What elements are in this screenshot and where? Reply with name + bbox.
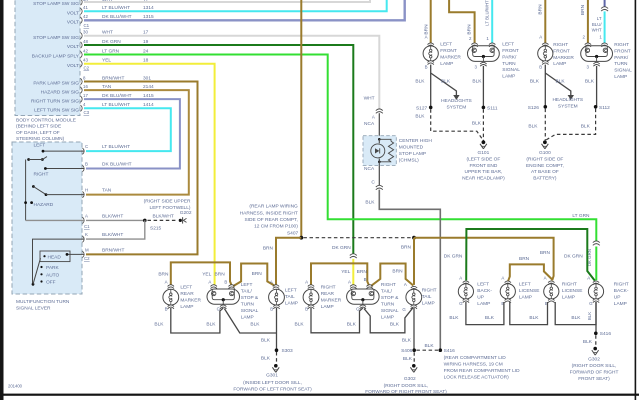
BLK label right branch	[556, 78, 566, 84]
lamp LEFT REAR MARKER	[163, 289, 179, 305]
svg-text:STEERING COLUMN): STEERING COLUMN)	[16, 136, 65, 142]
svg-text:LAMP: LAMP	[519, 294, 532, 300]
svg-text:LT BLU/WHT: LT BLU/WHT	[102, 5, 130, 11]
svg-text:LEFT TURN SW SIG: LEFT TURN SW SIG	[34, 108, 79, 114]
svg-text:BODY CONTROL MODULE: BODY CONTROL MODULE	[16, 117, 76, 123]
svg-text:BLK: BLK	[529, 315, 539, 321]
pin G label left tail/stop	[217, 307, 221, 312]
pin 1 label left park	[486, 36, 489, 41]
svg-text:S112: S112	[599, 105, 610, 111]
NCA note below CHMSL	[364, 166, 375, 172]
svg-text:TURN: TURN	[241, 301, 255, 307]
svg-text:BACKUP LAMP SPLY: BACKUP LAMP SPLY	[32, 54, 80, 60]
svg-text:FRONT: FRONT	[440, 48, 457, 54]
cut top row text slivers	[83, 0, 149, 3]
svg-text:G: G	[459, 301, 463, 306]
wire BRN feed left front marker	[430, 0, 432, 43]
BCM pin 8 row labels (BRN/WHT 301)	[33, 75, 151, 86]
svg-text:41: 41	[83, 5, 88, 10]
svg-text:FORWARD OF LEFT FRONT SEAT): FORWARD OF LEFT FRONT SEAT)	[233, 386, 312, 392]
right license caption	[562, 281, 583, 300]
multifunction turn signal lever box	[12, 142, 82, 294]
svg-text:BRN: BRN	[401, 245, 412, 251]
hazard contacts	[24, 201, 33, 204]
inline connector right park pin 1	[601, 7, 608, 11]
BCM pin 43 row labels (YEL 18)	[67, 58, 149, 69]
BLK label S406-S416	[424, 343, 434, 349]
svg-text:LAMP: LAMP	[321, 304, 334, 310]
BLK label right marker	[530, 78, 540, 84]
svg-text:BLK: BLK	[449, 315, 459, 321]
svg-text:LT: LT	[597, 16, 602, 21]
BRN staple marker to tail/stop pin B	[171, 262, 232, 286]
HEADLIGHTS SYSTEM text right	[552, 97, 583, 109]
svg-text:HAZARD: HAZARD	[34, 202, 54, 208]
splice S303	[275, 348, 293, 354]
svg-text:BRN: BRN	[580, 4, 586, 15]
svg-text:YEL: YEL	[341, 269, 350, 275]
svg-text:DK GRN: DK GRN	[444, 253, 463, 259]
dashed S407 harness link	[303, 237, 412, 239]
pin 2 label right park	[583, 35, 586, 40]
svg-text:BRN: BRN	[537, 4, 543, 15]
svg-text:SIGNAL: SIGNAL	[241, 308, 259, 314]
BRN label left drop	[263, 245, 274, 251]
pin G label right tail/stop	[356, 307, 360, 312]
svg-text:LAMP: LAMP	[422, 300, 435, 306]
BRN label left staple	[158, 272, 169, 278]
pin H stub	[46, 194, 84, 196]
BLK label right 2	[347, 322, 357, 328]
ground G302 right	[592, 347, 599, 355]
pin G label right backup	[589, 301, 593, 306]
dashed S416 to G302 right	[595, 335, 597, 347]
svg-text:BRN/WHT: BRN/WHT	[102, 75, 124, 81]
svg-text:M: M	[85, 247, 89, 252]
connector right backup pin G	[593, 299, 599, 303]
pin K stub and headlamp switch riser	[33, 239, 85, 284]
svg-text:G101: G101	[478, 150, 490, 156]
wire LT GRN 24 (pin 42) across to right back-up lamp	[84, 55, 596, 241]
svg-text:C1: C1	[84, 23, 90, 28]
lamp LEFT FRONT PARK/TURN SIGNAL	[468, 46, 500, 62]
wire YEL below connector to right tail/stop pin A	[352, 259, 354, 285]
svg-text:42: 42	[83, 14, 88, 19]
footwell location note	[144, 198, 191, 211]
svg-text:BLK: BLK	[581, 123, 591, 129]
connector right license pin B	[548, 299, 554, 303]
svg-text:VOLT: VOLT	[67, 44, 79, 50]
wire WHT 17 (pin 40, top cut row)	[84, 0, 370, 2]
pin B label right license	[545, 301, 548, 306]
BLK label below S127	[415, 113, 425, 119]
svg-text:BRN: BRN	[519, 256, 530, 262]
G100 label	[539, 150, 551, 156]
ground G301	[272, 364, 279, 372]
right turn contact stub (pin B)	[44, 167, 84, 170]
svg-text:BACK-: BACK-	[477, 288, 492, 294]
BCM pin 48 row labels (DK GRN 19)	[67, 39, 149, 50]
svg-text:C2: C2	[84, 65, 90, 70]
svg-text:A: A	[404, 282, 407, 287]
DK GRN label right	[564, 254, 583, 260]
svg-text:B: B	[165, 307, 168, 312]
svg-text:BLK: BLK	[485, 315, 495, 321]
turn signal blade	[32, 185, 47, 196]
pin A label left marker	[425, 35, 428, 40]
svg-text:MOUNTED: MOUNTED	[399, 144, 424, 150]
svg-text:STOP LAMP SW SIG: STOP LAMP SW SIG	[33, 35, 79, 41]
svg-text:A: A	[544, 275, 547, 280]
pin A label right rear marker	[305, 279, 308, 284]
svg-text:CENTER HIGH: CENTER HIGH	[399, 138, 433, 144]
pin B label left marker	[425, 64, 428, 69]
svg-text:HAZARD SW SIG: HAZARD SW SIG	[41, 89, 80, 95]
svg-text:A: A	[348, 279, 351, 284]
wire BLK left tail/stop G to tail B column	[224, 309, 276, 333]
connector at right marker pin A	[542, 43, 548, 47]
svg-text:(RIGHT DOOR SILL,: (RIGHT DOOR SILL,	[384, 383, 429, 389]
svg-text:LEFT: LEFT	[180, 285, 192, 291]
svg-text:LAMP: LAMP	[614, 301, 627, 307]
svg-text:LAMP: LAMP	[440, 61, 453, 67]
svg-text:TURN: TURN	[614, 61, 628, 67]
wire DK BLU/WHT 1415 (pin 17) to lever pin B	[84, 99, 180, 168]
BRN label right marker staple	[357, 269, 368, 275]
pin A label right tail/stop	[348, 279, 351, 284]
BLK label license left	[485, 315, 495, 321]
left turn contact stub (pin C)	[42, 150, 84, 153]
CHMSL pin C label	[371, 179, 375, 185]
connector right tail/stop pin G	[360, 305, 366, 309]
pin B label right tail/stop	[364, 277, 367, 282]
svg-text:BRN: BRN	[467, 24, 473, 35]
BLK label right 1	[295, 322, 305, 328]
svg-text:B: B	[270, 307, 273, 312]
svg-text:1314: 1314	[143, 5, 154, 11]
svg-text:(CHMSL): (CHMSL)	[399, 157, 419, 163]
BRN label (left park feed)	[467, 24, 473, 35]
dashed S112 to G100	[545, 109, 595, 141]
svg-text:B: B	[425, 64, 428, 69]
BRN staple right tail/stop pin B to tail pin A	[370, 264, 413, 287]
svg-text:WHT: WHT	[364, 96, 375, 102]
lamp RIGHT LICENSE	[544, 284, 559, 299]
svg-text:TAIL/: TAIL/	[241, 288, 253, 294]
connector at left park pin 1	[489, 43, 495, 47]
BLK rotated label	[587, 312, 592, 320]
wire BRN/WHT 301 (pin 8) to lever pin M	[84, 82, 198, 255]
wire BLK left marker pin B to S127	[430, 65, 432, 108]
connector left license pin B	[505, 299, 511, 303]
svg-text:BLK: BLK	[261, 356, 271, 362]
connector left backup pin G	[463, 299, 469, 303]
svg-text:BLK: BLK	[571, 315, 581, 321]
svg-text:MARKER: MARKER	[553, 55, 574, 61]
LEFT position label	[34, 143, 46, 149]
splice S127	[416, 105, 433, 111]
svg-text:MARKER: MARKER	[321, 298, 342, 304]
svg-text:G302: G302	[404, 376, 416, 382]
svg-text:1415: 1415	[143, 93, 154, 99]
CHMSL resistor	[379, 139, 393, 162]
svg-text:BLK: BLK	[390, 322, 400, 328]
BRN label right license drop	[540, 250, 551, 256]
wire BLK right marker B + tail/stop G	[311, 308, 363, 333]
svg-text:BLK: BLK	[154, 322, 164, 328]
svg-text:NCA: NCA	[364, 166, 375, 172]
splice S416 right	[594, 331, 611, 337]
page left border	[0, 0, 4, 400]
svg-text:(REAR LAMP WIRING: (REAR LAMP WIRING	[249, 204, 298, 210]
BLK label backup left	[449, 315, 459, 321]
svg-text:BLK: BLK	[528, 123, 538, 129]
lever connector C1 label	[84, 224, 90, 229]
YEL label right	[341, 269, 350, 275]
svg-text:RIGHT: RIGHT	[381, 282, 396, 288]
svg-text:DK GRN: DK GRN	[332, 245, 351, 251]
wire CHMSL internal	[378, 139, 380, 165]
NCA note above CHMSL	[364, 121, 375, 127]
svg-text:UP: UP	[614, 294, 621, 300]
svg-text:HEADLIGHTS: HEADLIGHTS	[552, 97, 583, 103]
BCM pin 4 row labels (LT BLU/WHT 1414)	[34, 102, 154, 113]
svg-text:SIGNAL: SIGNAL	[381, 308, 399, 314]
svg-text:(RIGHT SIDE OF: (RIGHT SIDE OF	[526, 156, 563, 162]
BLK label below S112	[581, 123, 591, 129]
svg-text:LAMP: LAMP	[241, 314, 254, 320]
svg-text:UP: UP	[477, 294, 484, 300]
svg-text:43: 43	[83, 58, 88, 63]
svg-text:H: H	[85, 188, 88, 193]
svg-text:G: G	[589, 301, 593, 306]
svg-text:17: 17	[83, 93, 88, 98]
BCM pin 42 row labels (DK BLU/WHT 1315)	[67, 14, 154, 25]
connector left tail pin B	[273, 305, 279, 309]
connector left tail pin A	[273, 285, 279, 289]
BLK label left 2	[206, 322, 216, 328]
svg-text:LT GRN: LT GRN	[102, 48, 120, 54]
svg-text:BLK: BLK	[402, 337, 412, 343]
pin A label left license	[501, 275, 504, 280]
lamp LEFT TAIL/STOP & TURN SIGNAL	[207, 289, 240, 304]
svg-text:C3: C3	[84, 110, 90, 115]
drawing number 201400	[8, 383, 23, 388]
svg-text:42: 42	[83, 48, 88, 53]
wire TAN 2144 (pin 16) to lever pin H	[84, 90, 189, 195]
svg-text:(RIGHT DOOR SILL,: (RIGHT DOOR SILL,	[572, 363, 617, 369]
dashed S303 to G301	[276, 352, 278, 365]
CHMSL top junction dot	[378, 138, 381, 141]
turn switch common contacts	[27, 157, 47, 161]
svg-text:HARNESS, INSIDE RIGHT: HARNESS, INSIDE RIGHT	[240, 210, 298, 216]
svg-text:OFF: OFF	[46, 280, 56, 286]
pin M stub	[66, 253, 84, 256]
svg-text:A: A	[372, 114, 375, 119]
BRN label right drop	[401, 245, 412, 251]
wire BRN trunk to right lamps	[414, 238, 554, 285]
lamp RIGHT REAR MARKER	[303, 289, 319, 305]
rear compartment harness note	[444, 355, 520, 381]
CHMSL bottom junction dot	[378, 161, 381, 164]
svg-text:BLK: BLK	[250, 322, 260, 328]
svg-text:BRN: BRN	[215, 272, 226, 278]
svg-text:S126: S126	[528, 105, 540, 111]
svg-text:1414: 1414	[143, 102, 154, 108]
G302 left label	[404, 376, 416, 382]
svg-text:S215: S215	[150, 226, 162, 232]
ground G100	[542, 140, 549, 148]
svg-text:2144: 2144	[143, 84, 154, 90]
svg-text:SIGNAL LEVER: SIGNAL LEVER	[16, 306, 51, 312]
G101 location note	[462, 156, 505, 181]
connector at left marker pin B	[428, 61, 434, 65]
svg-text:NEAR HEADLAMP): NEAR HEADLAMP)	[462, 176, 505, 182]
svg-text:BLK: BLK	[261, 338, 271, 344]
pin A label right marker	[539, 35, 542, 40]
svg-text:DK BLU/WHT: DK BLU/WHT	[102, 162, 132, 168]
BLK label right park	[585, 78, 595, 84]
svg-text:B: B	[305, 307, 308, 312]
svg-text:B: B	[85, 162, 88, 167]
BRN label license staple	[519, 256, 530, 262]
svg-text:BLK: BLK	[365, 199, 375, 205]
svg-text:STOP LAMP SW SIG: STOP LAMP SW SIG	[33, 1, 79, 7]
ground G101	[480, 140, 487, 148]
body control module connector box	[15, 0, 80, 116]
svg-text:BACK-: BACK-	[614, 288, 629, 294]
left rear marker caption	[180, 285, 201, 311]
splice S407	[299, 236, 303, 240]
left marker caption	[440, 42, 461, 67]
pin B label left rear marker	[165, 307, 168, 312]
wire DK GRN below connector to right back-up pin A	[595, 247, 597, 281]
pin A label right tail	[404, 282, 407, 287]
lamp RIGHT TAIL	[406, 289, 422, 305]
svg-text:LAMP: LAMP	[553, 61, 566, 67]
G302 left location note	[365, 383, 447, 395]
OFF contact	[40, 280, 55, 286]
svg-text:FRONT: FRONT	[553, 48, 570, 54]
splice S215	[143, 219, 147, 223]
svg-text:B: B	[224, 279, 227, 284]
svg-text:RIGHT: RIGHT	[614, 281, 629, 287]
dashed S127 to G101	[431, 109, 484, 140]
svg-text:BLK: BLK	[415, 78, 425, 84]
svg-text:A: A	[539, 35, 542, 40]
svg-text:16: 16	[83, 84, 88, 89]
wire BRN feed from top to S407	[300, 0, 302, 238]
BCM pin 17 row labels (DK BLU/WHT 1415)	[31, 93, 154, 104]
svg-text:TAIL: TAIL	[422, 294, 432, 300]
BRN label left staple 2	[252, 271, 263, 277]
ground G302 left	[410, 364, 417, 372]
svg-text:S416: S416	[600, 331, 612, 337]
G101 label	[478, 150, 490, 156]
pin B label left tail	[270, 307, 273, 312]
svg-text:(RIGHT SIDE UPPER: (RIGHT SIDE UPPER	[144, 198, 191, 204]
svg-text:PARK/: PARK/	[502, 54, 517, 60]
svg-text:(BEHIND LEFT SIDE: (BEHIND LEFT SIDE	[16, 124, 61, 130]
lamp RIGHT FRONT MARKER	[538, 46, 553, 61]
G301 label	[266, 373, 278, 379]
svg-text:LEFT: LEFT	[502, 42, 514, 48]
dashed lead S215 to G202	[148, 219, 177, 221]
svg-text:LT BLU/WHT: LT BLU/WHT	[102, 102, 130, 108]
BRN label left pin B	[215, 272, 226, 278]
connector right tail pin A	[411, 286, 417, 290]
DK GRN rotated label right	[587, 249, 592, 266]
page bottom border	[0, 394, 639, 396]
pin 3 label right park	[587, 64, 590, 69]
svg-text:HEADLIGHTS: HEADLIGHTS	[441, 98, 472, 104]
lever box caption	[16, 299, 70, 312]
svg-text:BLK: BLK	[556, 78, 566, 84]
wire BLK left license B to right license B	[510, 302, 548, 325]
svg-text:LAMP: LAMP	[562, 294, 575, 300]
BLK label left 3	[250, 322, 260, 328]
DK GRN label left	[444, 253, 463, 259]
svg-text:WHT: WHT	[592, 27, 602, 32]
svg-text:BLK: BLK	[472, 120, 482, 126]
svg-text:S407: S407	[287, 231, 299, 237]
svg-text:SIGNAL: SIGNAL	[614, 68, 632, 74]
svg-text:LEFT FOOTWELL): LEFT FOOTWELL)	[150, 205, 191, 211]
svg-text:(INSIDE LEFT DOOR SILL,: (INSIDE LEFT DOOR SILL,	[243, 380, 302, 386]
left tail caption	[285, 287, 298, 306]
lamp LEFT BACK-UP	[458, 284, 473, 299]
svg-text:A: A	[425, 35, 428, 40]
svg-text:A: A	[270, 279, 273, 284]
BRN label (right marker feed)	[537, 4, 543, 15]
BRN staple left license to right license	[508, 264, 552, 280]
svg-text:LAMP: LAMP	[381, 314, 394, 320]
wire CHMSL pin C lead	[378, 165, 380, 185]
svg-text:NCA: NCA	[364, 121, 375, 127]
right park caption	[614, 42, 632, 80]
svg-text:LAMP: LAMP	[614, 74, 627, 80]
BLK label above S303	[261, 338, 271, 344]
pin 2 label left park	[469, 36, 472, 41]
lamp RIGHT TAIL/STOP & TURN SIGNAL	[347, 289, 380, 304]
svg-text:SYSTEM: SYSTEM	[447, 104, 467, 110]
svg-text:LICENSE: LICENSE	[562, 288, 583, 294]
headlights system branch left	[431, 73, 460, 100]
svg-text:RIGHT TURN SW SIG: RIGHT TURN SW SIG	[31, 98, 79, 104]
svg-text:BLK: BLK	[585, 78, 595, 84]
svg-text:G: G	[402, 307, 406, 312]
HEADLIGHTS SYSTEM text left	[441, 98, 472, 110]
connector at right park pin 2	[585, 43, 591, 47]
page right border	[635, 0, 637, 400]
svg-text:30: 30	[83, 30, 88, 35]
BRN label right staple 2	[392, 269, 403, 275]
CHMSL box	[363, 136, 396, 166]
connector C1 label	[84, 23, 90, 28]
svg-text:RIGHT: RIGHT	[321, 285, 336, 291]
CHMSL caption	[399, 138, 433, 164]
left backup caption	[477, 281, 492, 307]
svg-text:STOP &: STOP &	[381, 295, 399, 301]
lamp LEFT LICENSE	[500, 284, 515, 299]
lamp RIGHT FRONT PARK/TURN SIGNAL	[581, 46, 613, 62]
lamp LEFT FRONT MARKER	[423, 46, 438, 61]
connector at right park pin 3	[593, 62, 599, 66]
inline connector on LT GRN drop	[593, 241, 600, 245]
svg-text:FROM REAR COMPARTMENT LID: FROM REAR COMPARTMENT LID	[444, 368, 520, 374]
svg-text:BRN: BRN	[158, 272, 169, 278]
svg-text:(LEFT SIDE OF: (LEFT SIDE OF	[467, 156, 501, 162]
